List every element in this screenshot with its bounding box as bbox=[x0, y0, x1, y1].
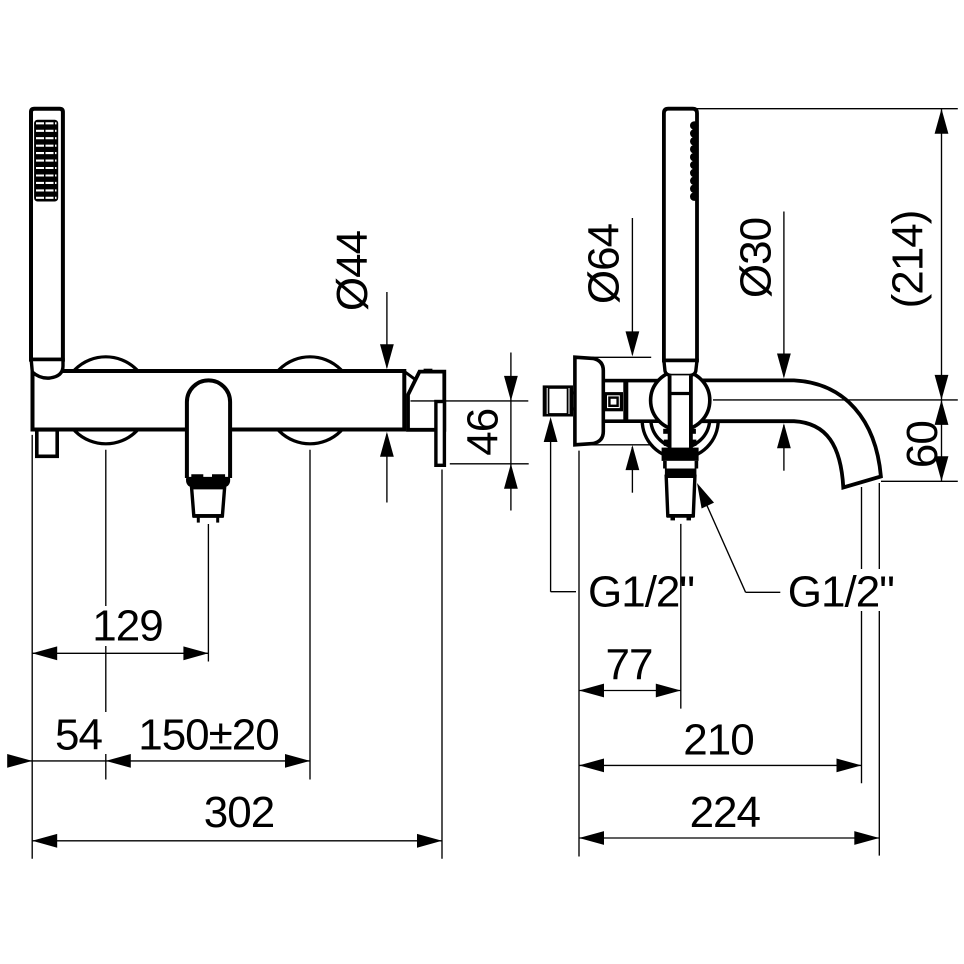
wall flange circle 2 (front view) bbox=[267, 357, 354, 444]
O44 arrows bbox=[380, 344, 394, 369]
mixer body (horizontal cylinder, front view) bbox=[33, 371, 405, 430]
handle joint line bbox=[31, 358, 63, 362]
dimension line 54 / 150+-20 bbox=[9, 760, 311, 762]
G1/2 threaded nipple (side view) bbox=[544, 387, 571, 415]
(214)/60 extension lines bbox=[697, 108, 958, 110]
54 outside arrow bbox=[7, 754, 32, 768]
dimension line 224 bbox=[579, 837, 879, 839]
extension line right end (x=442) bbox=[441, 470, 443, 859]
wall connection tube (side view) bbox=[603, 381, 669, 422]
wall plate (side escutcheon at right end, in front of nut) bbox=[436, 402, 445, 466]
O64 extension lines bbox=[575, 356, 651, 358]
extension line left end (x=32.2) bbox=[31, 435, 33, 859]
46 extension lines bbox=[411, 400, 529, 402]
wall flange (side view, O64) bbox=[575, 357, 603, 445]
svg-text:46: 46 bbox=[459, 409, 508, 456]
302 arrows bbox=[32, 834, 57, 848]
svg-text:Ø44: Ø44 bbox=[328, 230, 377, 311]
dimension line 210 bbox=[579, 764, 862, 766]
text 129 (with halo) bbox=[93, 606, 157, 646]
shower holder fork arcs (side view) bbox=[642, 420, 718, 458]
svg-text:210: 210 bbox=[683, 716, 753, 765]
210 arrows bbox=[579, 759, 604, 773]
text 54 (halo over extension line) bbox=[98, 712, 110, 754]
tub spout (front view, tube pointing down) bbox=[187, 380, 230, 478]
shower inlet tube through body bbox=[670, 375, 691, 448]
spray nozzles (dots on right face) bbox=[690, 121, 699, 201]
(214)/60 dimension line bbox=[941, 109, 943, 482]
224 arrows bbox=[579, 831, 604, 845]
svg-text:Ø64: Ø64 bbox=[580, 223, 629, 304]
dimension line 129 bbox=[32, 652, 208, 654]
46 dimension line bbox=[510, 353, 512, 511]
extension line handle centre (x=680.8) bbox=[680, 524, 682, 709]
holder clamp tabs bbox=[663, 429, 696, 446]
O30 dimension line bbox=[783, 212, 785, 377]
svg-text:54: 54 bbox=[55, 711, 102, 760]
O64 dimension line bbox=[631, 218, 633, 355]
dimension line 302 bbox=[32, 840, 442, 842]
150+-20 arrows bbox=[106, 754, 131, 768]
mixer body circle (side view, O44) bbox=[651, 371, 710, 430]
svg-text:224: 224 bbox=[690, 788, 761, 837]
wall flange circle 1 (front view) bbox=[62, 357, 149, 444]
shower holder cup (front view) bbox=[31, 360, 63, 379]
set screw square bbox=[605, 394, 621, 410]
extension line flange2 centre (x=310) bbox=[309, 450, 311, 780]
hose cone nut (black band 2) bbox=[665, 469, 697, 477]
129 arrows bbox=[32, 646, 57, 660]
text G1/2 right (with halo) bbox=[785, 569, 893, 611]
extension line wall (x=579) bbox=[578, 451, 580, 857]
46 arrows (outside) bbox=[504, 376, 518, 401]
G1/2 right leader arrow bbox=[697, 483, 714, 509]
(214) arrows bbox=[935, 109, 949, 134]
spray face (black with dashed rows) bbox=[34, 120, 58, 202]
G1/2 left leader arrow bbox=[544, 417, 558, 442]
tub spout (side view, curved) bbox=[701, 380, 881, 487]
neck between nipple and flange bbox=[571, 393, 575, 409]
hand shower handle (side view) bbox=[664, 109, 697, 361]
svg-text:129: 129 bbox=[92, 602, 162, 651]
svg-text:G1/2": G1/2" bbox=[588, 568, 694, 617]
union nut at right end bbox=[405, 370, 445, 430]
aerator cup bbox=[192, 488, 225, 523]
handle joint line (side view) bbox=[664, 359, 697, 363]
svg-text:G1/2": G1/2" bbox=[788, 568, 894, 617]
G1/2 left leader bbox=[550, 432, 552, 592]
rubber ring (black band) bbox=[662, 448, 699, 461]
extension line spout outlet centre (x=861.5) bbox=[861, 487, 863, 783]
60 arrows bbox=[935, 400, 949, 425]
svg-text:150±20: 150±20 bbox=[138, 711, 279, 760]
dimension line 77 bbox=[579, 690, 681, 692]
O30 arrows bbox=[777, 354, 791, 379]
O64 arrows bbox=[626, 331, 640, 356]
svg-text:77: 77 bbox=[606, 641, 653, 690]
77 arrows bbox=[579, 684, 604, 698]
holder cup (side view) bbox=[664, 361, 697, 376]
aerator ring (black band) bbox=[186, 474, 230, 489]
svg-text:Ø30: Ø30 bbox=[732, 218, 781, 298]
G1/2 right leader bbox=[701, 491, 746, 592]
extension line flange1 centre (x=105.8) bbox=[105, 450, 107, 780]
hand shower handle (front view) bbox=[31, 109, 63, 360]
svg-text:302: 302 bbox=[204, 788, 274, 837]
hose connector (tapered) bbox=[666, 476, 695, 520]
extension line spout tip (x=879.3) bbox=[878, 483, 880, 856]
lower wall bracket (front view) bbox=[37, 430, 57, 457]
divider band on tube bbox=[623, 381, 628, 422]
O44 dimension line bbox=[386, 292, 388, 368]
extension line spout centre (x=208.4) bbox=[207, 524, 209, 662]
arrowheads bbox=[7, 109, 948, 848]
svg-text:60: 60 bbox=[898, 421, 947, 468]
white gap band bbox=[665, 461, 697, 469]
svg-text:(214): (214) bbox=[884, 211, 933, 309]
